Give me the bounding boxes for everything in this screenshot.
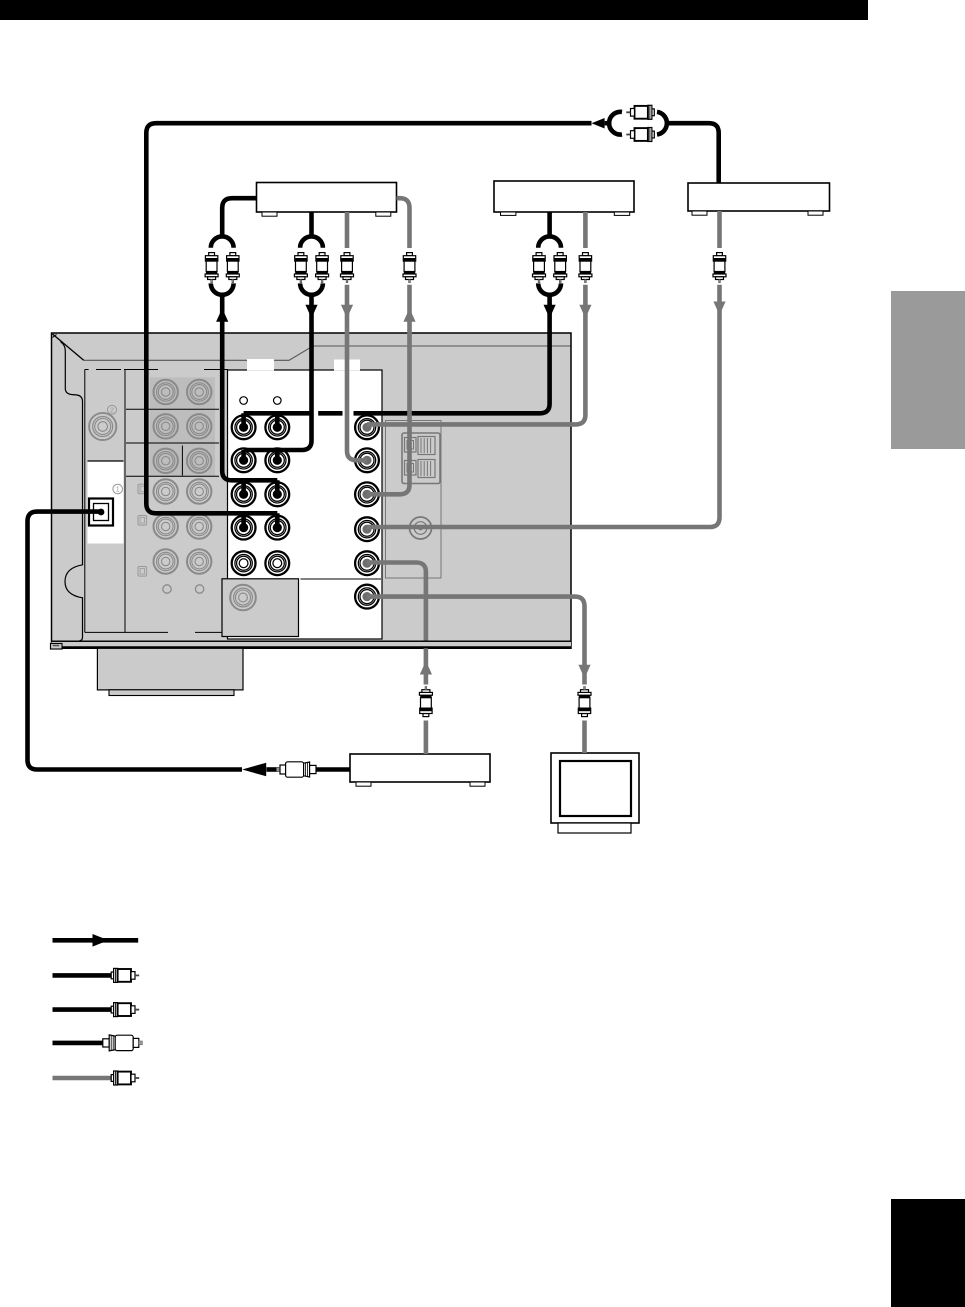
svg-text:2: 2: [110, 407, 114, 414]
svg-text:1: 1: [116, 487, 120, 494]
